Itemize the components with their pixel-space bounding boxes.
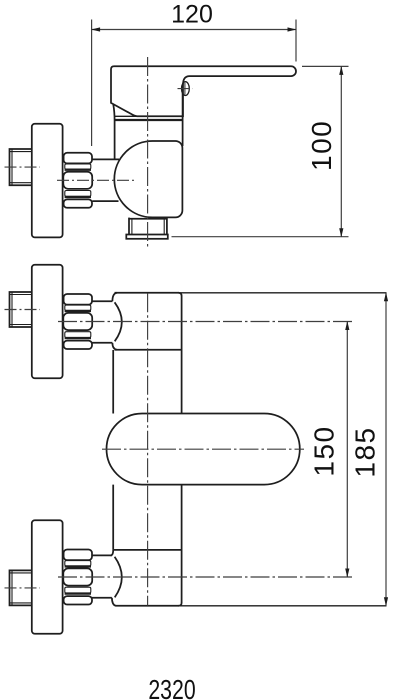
svg-text:150: 150 (309, 425, 340, 476)
svg-text:2320: 2320 (148, 674, 195, 700)
svg-text:120: 120 (171, 0, 213, 28)
svg-text:100: 100 (306, 120, 337, 171)
svg-text:185: 185 (349, 426, 380, 477)
